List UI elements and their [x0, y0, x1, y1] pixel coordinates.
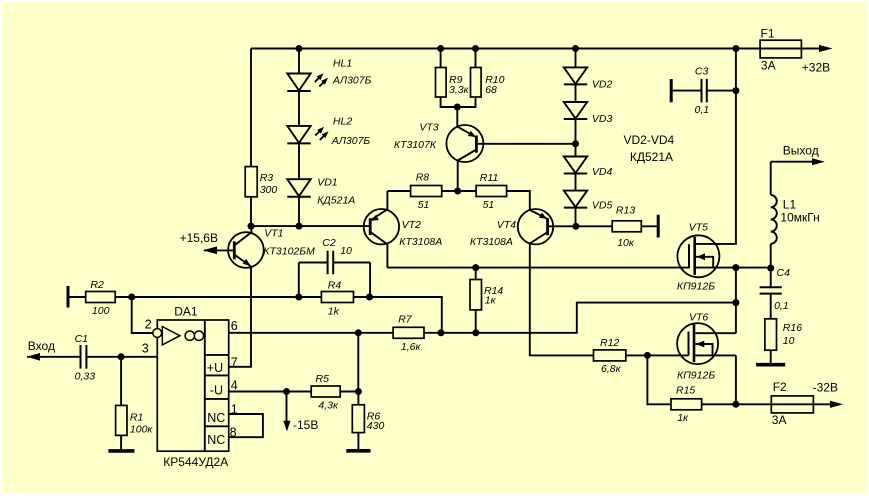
resistor R14: [470, 280, 503, 310]
terminal bar R2: [67, 286, 70, 308]
svg-text:NC: NC: [207, 433, 225, 447]
LED HL2: [287, 116, 370, 148]
node junction top bus VD2: [572, 45, 579, 52]
svg-text:C3: C3: [695, 66, 709, 78]
diode VD4: [564, 157, 613, 179]
node junction L1 C4: [767, 265, 774, 272]
wire VT5 source to VT6 drain: [695, 268, 736, 334]
svg-text:-U: -U: [210, 384, 223, 398]
wire right rail down to VT5 drain: [696, 49, 736, 244]
svg-text:68: 68: [485, 84, 497, 96]
node junction R3 VT1 collector: [248, 223, 255, 230]
capacitor C1: [75, 333, 158, 383]
resistor R5: [311, 373, 340, 412]
wire VD2-VD5 chain links: [575, 49, 577, 227]
wire R12 node down to R15: [647, 355, 671, 404]
node junction R9 R10: [454, 104, 461, 111]
capacitor C4: [760, 267, 790, 319]
wire R6 leads: [357, 392, 359, 451]
diode VD1: [287, 176, 355, 206]
svg-text:C4: C4: [777, 267, 791, 279]
wire VT3 collector drop: [457, 161, 459, 192]
node junction R14 top: [472, 264, 479, 271]
svg-text:300: 300: [260, 184, 278, 196]
svg-text:КТ3108А: КТ3108А: [470, 236, 513, 248]
svg-text:0,33: 0,33: [75, 370, 96, 382]
ground R1: [108, 449, 134, 453]
svg-text:VT2: VT2: [402, 219, 421, 231]
svg-text:VT3: VT3: [419, 122, 438, 134]
svg-text:1к: 1к: [677, 412, 689, 424]
svg-text:51: 51: [483, 199, 495, 211]
svg-text:10: 10: [783, 335, 795, 347]
wire VT1 collector stub: [250, 226, 252, 232]
resistor R1: [116, 405, 154, 435]
resistor R9: [436, 68, 470, 98]
wire R3 branch drop: [250, 49, 252, 227]
node junction VT3 collector R8 R11: [454, 188, 461, 195]
svg-text:7: 7: [231, 356, 238, 370]
fuse F1: [760, 27, 801, 73]
svg-text:C1: C1: [75, 333, 88, 345]
wire pin2 jog: [132, 297, 153, 333]
transistor VT1: [204, 228, 315, 268]
svg-text:1k: 1k: [328, 305, 340, 317]
wire R9 leads: [441, 49, 458, 108]
wire VT1 emitter to pin7: [229, 267, 251, 367]
svg-text:R12: R12: [600, 337, 619, 349]
svg-text:3А: 3А: [761, 58, 776, 72]
net Выход arrow: [771, 144, 825, 166]
svg-text:АЛ307Б: АЛ307Б: [331, 135, 371, 147]
node junction VD5 VT4 base R13: [572, 223, 579, 230]
svg-text:R11: R11: [480, 172, 498, 184]
node junction C2 left: [295, 294, 302, 301]
resistor R12: [594, 337, 626, 375]
label VD2-VD4 КД521А: [624, 133, 675, 164]
node junction top bus R9: [437, 45, 444, 52]
node junction output feedback tap: [438, 329, 445, 336]
svg-text:R3: R3: [260, 172, 274, 184]
resistor R16: [765, 319, 802, 350]
diode VD3: [564, 102, 613, 125]
wire R1 leads: [120, 357, 122, 451]
svg-text:2: 2: [145, 318, 152, 332]
node junction top bus LED: [296, 45, 303, 52]
svg-text:VT1: VT1: [264, 228, 283, 240]
wire VT6 gate: [647, 354, 688, 356]
terminal bar R13: [657, 215, 660, 238]
transistor VT5: [677, 222, 720, 293]
node junction C3 right rail: [732, 87, 739, 94]
node junction R2 pin2 tap: [128, 294, 135, 301]
svg-text:R15: R15: [676, 385, 695, 397]
wire VT4 collector to R12: [530, 244, 594, 356]
svg-text:6: 6: [231, 319, 238, 333]
node junction VD3 VD4 VT3 base: [572, 140, 579, 147]
ground R6: [346, 449, 370, 453]
svg-text:10мкГн: 10мкГн: [780, 211, 819, 225]
wire VT3 base to VD3-VD4 node: [476, 143, 575, 145]
svg-text:КД521А: КД521А: [630, 150, 673, 164]
resistor R4: [321, 280, 353, 318]
node junction C2 right: [366, 294, 373, 301]
wire LED chain links: [298, 49, 300, 227]
svg-text:VT6: VT6: [689, 312, 708, 324]
svg-text:3: 3: [142, 342, 149, 356]
op-amp DA1: [157, 304, 228, 469]
transistor VT4: [470, 209, 553, 248]
fuse F2: [771, 380, 813, 427]
svg-text:VT4: VT4: [497, 219, 516, 231]
svg-text:L1: L1: [783, 198, 797, 212]
svg-text:R2: R2: [90, 279, 104, 291]
svg-text:+U: +U: [207, 361, 223, 375]
diode VD5: [564, 191, 613, 212]
svg-text:F2: F2: [773, 380, 787, 394]
wire R13 leads: [576, 225, 658, 227]
wire top +32V bus: [251, 48, 821, 50]
node junction top bus C3: [732, 45, 739, 52]
svg-text:VD4: VD4: [592, 166, 613, 178]
wire VT1/VT2 base row: [251, 225, 369, 227]
wire VT3 emitter feed: [456, 107, 458, 127]
svg-text:1,6к: 1,6к: [401, 341, 422, 353]
net -32V arrow: [813, 381, 843, 408]
pin 2 bubble: [153, 329, 162, 338]
svg-text:R5: R5: [316, 373, 330, 385]
resistor R15: [671, 385, 702, 424]
wire R14 leads: [475, 268, 477, 333]
svg-text:R16: R16: [783, 322, 802, 334]
svg-text:0,1: 0,1: [695, 104, 710, 116]
svg-text:10: 10: [340, 245, 352, 257]
wire VT2 collector down: [386, 244, 388, 267]
svg-text:C2: C2: [322, 237, 336, 249]
transistor VT3: [394, 122, 484, 163]
resistor R13: [612, 205, 641, 250]
resistor R2: [86, 279, 116, 317]
node junction top bus R10: [472, 45, 479, 52]
capacitor C3: [671, 66, 736, 116]
inductor L1: [771, 162, 820, 268]
node junction R5 R6: [355, 388, 362, 395]
net -15V arrow: [283, 392, 318, 433]
svg-text:F1: F1: [761, 27, 775, 41]
resistor R7: [393, 314, 424, 353]
svg-text:Вход: Вход: [28, 339, 55, 353]
svg-text:VD2: VD2: [592, 79, 613, 91]
svg-text:АЛ307Б: АЛ307Б: [332, 75, 372, 87]
wire VT4 base: [548, 225, 576, 227]
node junction R12 VT6 gate R15: [644, 352, 651, 359]
diode VD2: [564, 67, 613, 90]
svg-text:51: 51: [418, 199, 430, 211]
wire R2 row feedback: [68, 297, 442, 333]
LED HL1: [287, 58, 371, 92]
wire VT2 emitter up: [386, 191, 388, 209]
svg-text:VD2-VD4: VD2-VD4: [624, 133, 675, 147]
svg-text:3А: 3А: [772, 413, 787, 427]
svg-text:КД521А: КД521А: [317, 194, 355, 206]
svg-text:+32В: +32В: [802, 60, 830, 74]
svg-text:0,1: 0,1: [774, 300, 789, 312]
node junction VT6 drain tap: [732, 299, 739, 306]
wire R12 right lead: [626, 354, 648, 356]
svg-text:100к: 100к: [130, 423, 154, 435]
svg-text:КТ3107К: КТ3107К: [394, 139, 437, 151]
wire R8 R11 row: [387, 191, 529, 210]
wire R10 leads: [457, 49, 475, 108]
svg-text:-15В: -15В: [293, 418, 318, 432]
svg-text:NC: NC: [207, 411, 225, 425]
resistor R6: [352, 405, 384, 433]
net +32V arrow: [802, 45, 833, 74]
svg-text:430: 430: [367, 420, 385, 432]
svg-text:R7: R7: [398, 314, 413, 326]
resistor R10: [471, 68, 505, 98]
svg-text:HL1: HL1: [333, 58, 352, 70]
ground R16: [756, 350, 785, 365]
node junction output R14: [472, 329, 479, 336]
node junction VT6 source R15 F2: [732, 401, 739, 408]
node junction -15V tap: [283, 388, 290, 395]
svg-text:КР544УД2А: КР544УД2А: [163, 455, 228, 469]
wire VT5 source run: [695, 267, 771, 269]
svg-text:4,3к: 4,3к: [318, 399, 339, 411]
wire op-amp output row: [229, 303, 736, 333]
wire long gate wire VT2 collector to VT5 gate: [387, 267, 689, 269]
node junction output R5R6 tap: [355, 329, 362, 336]
svg-text:R8: R8: [416, 172, 430, 184]
svg-text:R13: R13: [616, 205, 635, 217]
wire R5R6 node up to output: [357, 333, 359, 392]
svg-text:10к: 10к: [617, 237, 635, 249]
node junction VD1 bottom: [296, 223, 303, 230]
resistor R3: [245, 167, 277, 197]
net +15,6V arrow: [180, 231, 218, 254]
svg-text:КП912Б: КП912Б: [677, 280, 715, 292]
wire NC bracket: [229, 414, 263, 437]
svg-text:R4: R4: [328, 280, 342, 292]
capacitor C2: [299, 237, 370, 297]
wire R15 to F2 arrow: [702, 403, 831, 405]
svg-text:VD3: VD3: [592, 113, 613, 125]
svg-text:VD1: VD1: [317, 176, 337, 188]
node junction VT5 source rail: [732, 264, 739, 271]
transistor VT2: [364, 209, 443, 248]
resistor R11: [476, 172, 507, 211]
transistor VT6: [677, 312, 718, 382]
svg-text:1к: 1к: [485, 295, 497, 307]
svg-text:КП912Б: КП912Б: [677, 370, 715, 382]
wire VT6 source down: [694, 355, 736, 404]
svg-text:КТ3108А: КТ3108А: [399, 236, 442, 248]
svg-text:R1: R1: [130, 411, 143, 423]
svg-text:Выход: Выход: [783, 144, 819, 158]
svg-text:3,3к: 3,3к: [449, 84, 470, 96]
svg-text:-32В: -32В: [813, 381, 838, 395]
wire pin4 row: [229, 391, 359, 393]
svg-text:6,8к: 6,8к: [601, 363, 622, 375]
node junction C1 R1 pin3: [118, 353, 125, 360]
svg-text:HL2: HL2: [333, 116, 352, 128]
resistor R8: [411, 172, 442, 211]
svg-text:VD5: VD5: [592, 200, 613, 212]
svg-text:VT5: VT5: [689, 222, 708, 234]
svg-text:+15,6В: +15,6В: [180, 231, 218, 245]
net Вход arrow: [27, 339, 80, 360]
svg-text:100: 100: [92, 305, 110, 317]
svg-text:DA1: DA1: [174, 304, 198, 318]
svg-text:КТ3102БМ: КТ3102БМ: [263, 246, 315, 258]
